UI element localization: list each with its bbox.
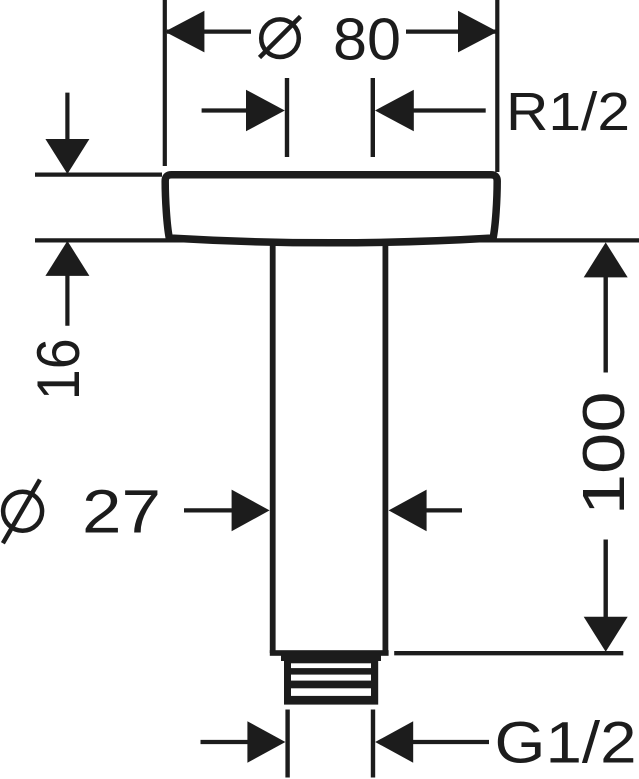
extension line right of G1/2 dimension xyxy=(371,710,375,778)
tick left of R1/2 connection xyxy=(285,78,289,157)
pipe end reference line for 100 dimension xyxy=(394,651,623,655)
100 dimension lower arrow pointing down xyxy=(584,540,628,652)
ceiling line left of flange xyxy=(35,173,162,177)
pipe right wall xyxy=(382,243,388,653)
G1/2 left arrow pointing right xyxy=(201,721,286,763)
svg-text:16: 16 xyxy=(25,338,92,400)
thread groove 2 xyxy=(291,675,371,681)
extension line left of Ø80 dimension xyxy=(163,0,167,166)
svg-text:R1/2: R1/2 xyxy=(506,82,630,142)
16 dimension lower arrow pointing up xyxy=(45,241,89,326)
thread shoulder step xyxy=(281,655,381,661)
Ø80 dimension line left segment with left arrowhead xyxy=(165,11,251,53)
svg-text:27: 27 xyxy=(82,477,161,545)
Ø80 dimension line right segment with right arrowhead xyxy=(406,11,498,53)
threaded connector body G1/2 xyxy=(284,659,378,705)
ceiling reference line full width xyxy=(35,238,639,242)
diameter symbol of Ø80 label xyxy=(260,17,301,58)
svg-text:100: 100 xyxy=(571,391,637,515)
R1/2 left arrow pointing right xyxy=(202,90,285,132)
pipe bottom cap xyxy=(270,650,389,656)
pipe left wall xyxy=(270,243,276,653)
flange (ceiling escutcheon) xyxy=(165,175,497,243)
Ø27 left arrow pointing right at pipe wall xyxy=(184,490,270,532)
svg-text:G1/2: G1/2 xyxy=(495,711,637,776)
thread groove 1 xyxy=(291,663,371,668)
16 dimension upper arrow pointing down xyxy=(45,93,89,174)
thread groove 3 xyxy=(291,688,371,696)
diameter symbol of Ø27 label xyxy=(3,480,42,544)
G1/2 right arrow pointing left xyxy=(375,721,489,763)
R1/2 right arrow pointing left xyxy=(375,90,486,132)
Ø27 right arrow pointing left at pipe wall xyxy=(389,490,462,532)
100 dimension upper arrow pointing up xyxy=(584,242,628,372)
svg-text:80: 80 xyxy=(333,6,401,72)
tick right of R1/2 connection xyxy=(371,78,375,157)
extension line right of Ø80 dimension xyxy=(495,0,499,172)
extension line left of G1/2 dimension xyxy=(285,710,289,778)
